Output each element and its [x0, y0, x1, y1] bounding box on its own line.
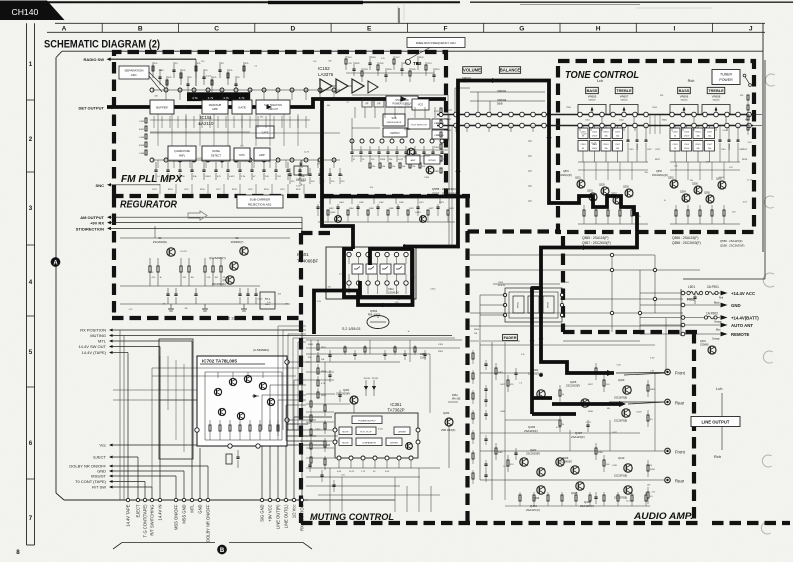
- capacitor: [405, 146, 407, 152]
- op-amp U152a: [320, 79, 332, 93]
- hollow gray arrow regurator: [188, 211, 207, 220]
- capacitor: [275, 162, 277, 170]
- wire: [640, 304, 686, 306]
- capacitor: [203, 162, 205, 170]
- transistor Q560: [718, 181, 726, 189]
- svg-text:5.6V: 5.6V: [402, 99, 407, 101]
- wire to pin MTL: [191, 341, 193, 498]
- resistor: [211, 80, 213, 85]
- wire: [394, 477, 396, 512]
- svg-text:47k: 47k: [637, 216, 640, 218]
- wire: [686, 126, 688, 129]
- pin: [681, 303, 685, 307]
- wire: [341, 477, 343, 512]
- capacitor: [432, 146, 434, 152]
- IC702 pin circles: [195, 428, 199, 432]
- resistor: [204, 258, 206, 266]
- terminal +14.4V(BATT): [721, 315, 728, 320]
- resistor: [157, 258, 159, 266]
- svg-text:33k: 33k: [260, 116, 263, 118]
- svg-text:47k: 47k: [317, 164, 320, 166]
- wire: [201, 116, 203, 128]
- svg-text:47k: 47k: [328, 287, 331, 289]
- resistor: [195, 66, 197, 71]
- capacitor: [321, 470, 323, 475]
- transistor: [259, 382, 266, 389]
- wire: [640, 292, 686, 294]
- capacitor: [719, 126, 721, 141]
- svg-text:68k: 68k: [159, 70, 162, 72]
- svg-text:0.022: 0.022: [206, 75, 212, 77]
- capacitor: [351, 146, 353, 152]
- transistor Q412: [624, 486, 632, 494]
- transistor Q401: [537, 390, 545, 398]
- vco step box: [412, 99, 429, 110]
- resistor: [747, 125, 749, 130]
- terminal AUTO ANT: [721, 323, 728, 328]
- svg-text:1/50V: 1/50V: [719, 177, 725, 179]
- wire: [112, 475, 176, 477]
- wire: [110, 222, 302, 224]
- resistor: [399, 163, 401, 168]
- transistor Q553: [589, 193, 597, 201]
- trigger box: [432, 119, 448, 129]
- node: [560, 303, 563, 306]
- capacitor: [316, 206, 319, 208]
- capacitor: [299, 168, 301, 174]
- wire stub: [269, 114, 271, 146]
- wire: [265, 116, 267, 128]
- wire stub: [704, 127, 706, 131]
- wire: [112, 340, 192, 342]
- node: [633, 112, 638, 117]
- capacitor: [728, 126, 730, 141]
- fm lower vertical stubs: [159, 184, 161, 194]
- node: [465, 112, 470, 117]
- svg-text:0.022: 0.022: [315, 428, 321, 430]
- transistor Q408: [576, 482, 584, 490]
- capacitor: [155, 162, 157, 170]
- diode: [365, 380, 367, 396]
- wire stub: [671, 127, 673, 131]
- potentiometer: [528, 296, 539, 313]
- wire stub: [726, 127, 728, 131]
- right area thin frame: [683, 278, 765, 280]
- resistor: [495, 443, 497, 448]
- resistor: [595, 363, 597, 368]
- AUDIO AMP block dashed border: [563, 330, 697, 334]
- capacitor: [339, 390, 341, 395]
- resistor: [387, 210, 389, 215]
- resistor: [377, 65, 379, 70]
- thick-to-terminal links: [624, 373, 665, 375]
- wire: [193, 116, 195, 128]
- wire: [424, 107, 426, 118]
- wire: [237, 160, 239, 168]
- resistor: [345, 59, 347, 64]
- mute box 1: [339, 427, 352, 435]
- wire: [209, 116, 211, 128]
- pin LINE OUT(L): [284, 498, 287, 501]
- node: [725, 112, 730, 117]
- BASS label L: [586, 87, 599, 93]
- bus Lch: [437, 114, 753, 116]
- wire stub: [262, 429, 300, 431]
- resistor: [212, 258, 214, 266]
- resistor: [447, 210, 449, 215]
- capacitor: [423, 353, 426, 355]
- wire stub: [634, 127, 636, 131]
- resistor: [239, 420, 241, 425]
- resistor: [647, 380, 649, 385]
- svg-text:0.022: 0.022: [378, 429, 384, 431]
- capacitor: [368, 62, 371, 64]
- fm title underline wire: [56, 51, 62, 57]
- VR152 trimmer: [294, 166, 308, 175]
- wire to pin +9V VCC: [269, 424, 271, 498]
- capacitor: [287, 162, 289, 170]
- resistor: [344, 347, 346, 352]
- volume wires: [455, 87, 470, 89]
- wire h: [306, 403, 350, 405]
- wire stub: [590, 127, 592, 131]
- wire: [112, 346, 160, 348]
- volume col stubs: [455, 126, 457, 133]
- capacitor: [336, 206, 339, 208]
- transistor Q555: [601, 187, 609, 195]
- flip-flop box: [356, 427, 376, 435]
- power switch S601: [743, 74, 746, 77]
- resistor: [647, 410, 649, 415]
- resistor: [145, 118, 147, 123]
- resistor: [369, 163, 371, 168]
- resistor: [472, 450, 474, 453]
- capacitor: [441, 146, 443, 152]
- wire: [406, 486, 408, 512]
- analog switch: [352, 264, 363, 274]
- fm mid extra wires: [150, 132, 340, 134]
- resistor: [711, 205, 713, 210]
- noise overlay: [0, 0, 1, 1]
- wire: [384, 107, 386, 118]
- svg-text:2.2k: 2.2k: [267, 302, 271, 304]
- wire: [177, 116, 179, 128]
- node: [747, 112, 752, 117]
- FM PLL MPX block dashed border: [114, 52, 446, 196]
- binder holes right edge: [765, 74, 774, 86]
- resistor: [389, 163, 391, 168]
- thick trace: IC501 loop: [344, 249, 412, 297]
- MUTING CONTROL block dashed border: [465, 196, 469, 523]
- capacitor: [587, 420, 589, 425]
- svg-text:11.2V: 11.2V: [503, 466, 509, 468]
- resistor: [631, 492, 633, 495]
- resistor: [440, 168, 442, 173]
- capacitor: [289, 168, 291, 174]
- resistor: [603, 375, 605, 380]
- wire reg rails: [120, 237, 290, 239]
- pin R/T SWITCHING: [150, 498, 153, 501]
- terminal REMOTE: [721, 332, 728, 337]
- resistor: [647, 460, 649, 465]
- node: [681, 112, 686, 117]
- transistor: [214, 388, 221, 395]
- resistor: [583, 205, 585, 210]
- capacitor: [263, 162, 265, 170]
- resistor: [427, 210, 429, 215]
- wire: [112, 335, 452, 337]
- capacitor C500: [670, 128, 680, 139]
- resistor: [409, 163, 411, 168]
- wire stub: [294, 416, 332, 418]
- wire: [306, 411, 334, 413]
- capacitor: [167, 162, 169, 170]
- svg-text:1/50V: 1/50V: [148, 272, 154, 274]
- capacitor: [485, 410, 487, 414]
- node: [600, 112, 605, 117]
- transistor Q406: [571, 466, 579, 474]
- svg-text:47k: 47k: [399, 107, 402, 109]
- svg-text:0.022: 0.022: [257, 299, 263, 301]
- capacitor: [627, 126, 629, 141]
- resistor: [317, 388, 319, 392]
- wire: [112, 465, 208, 467]
- node: [476, 112, 481, 117]
- pin +9V VCC: [268, 498, 271, 501]
- resistor: [723, 205, 725, 210]
- resistor: [747, 95, 749, 100]
- resistor: [145, 134, 147, 139]
- wire rows fm: [152, 89, 340, 91]
- wire: [249, 116, 251, 128]
- wire stub: [283, 114, 285, 146]
- svg-text:1k: 1k: [407, 331, 409, 333]
- svg-text:0.022: 0.022: [586, 422, 592, 424]
- R702 C702 pair: [226, 454, 232, 464]
- resistor: [617, 492, 619, 495]
- node: [589, 112, 594, 117]
- capacitor: [636, 126, 638, 141]
- wire: [417, 198, 419, 204]
- wire to pin RX POSITION: [301, 330, 303, 498]
- LINE OUTPUT label: [691, 417, 740, 427]
- pin MSS ON/OFF: [174, 498, 177, 501]
- wire: [253, 160, 255, 168]
- wire: [351, 198, 353, 204]
- pin: [681, 332, 685, 336]
- svg-text:DRIVER: DRIVER: [428, 160, 436, 162]
- wire to pin LINE OUT(R): [277, 436, 279, 498]
- resistor: [495, 363, 497, 368]
- resistor: [317, 352, 319, 356]
- noise detect box: [202, 146, 230, 161]
- pins2 risers into muting: [261, 395, 263, 430]
- TREBLE label R: [707, 87, 725, 93]
- wire stub: [682, 127, 684, 131]
- capacitor: [595, 492, 597, 497]
- wire to pin 1/2 Vcc: [293, 417, 295, 498]
- resistor: [699, 205, 701, 210]
- transistor Q554: [682, 194, 690, 202]
- node: [454, 112, 459, 117]
- capacitor C503: [613, 128, 623, 139]
- resistor: [364, 347, 366, 352]
- capacitor C500: [578, 128, 588, 139]
- svg-text:1k: 1k: [593, 144, 595, 146]
- capacitor: [383, 353, 386, 355]
- IC351 outline: [335, 413, 418, 458]
- wire: [157, 160, 159, 168]
- resistor: [149, 258, 151, 266]
- capacitor C511: [682, 141, 692, 152]
- wire: [110, 227, 302, 229]
- resistor: [440, 144, 442, 149]
- wire: [418, 468, 420, 512]
- output terminal Rear R: [665, 477, 671, 483]
- capacitor: [247, 288, 249, 294]
- BASS label R: [678, 87, 691, 93]
- wire stub: [693, 127, 695, 131]
- pin: [681, 291, 685, 295]
- resistor: [145, 126, 147, 131]
- power entry rail: [680, 289, 682, 336]
- svg-text:11.2V: 11.2V: [626, 500, 632, 502]
- pin 14.4V TAPE: [126, 498, 129, 501]
- capacitor: [737, 126, 739, 141]
- scan smudges: [397, 6, 399, 22]
- svg-text:5.6V: 5.6V: [617, 365, 622, 367]
- capacitor: [515, 448, 517, 453]
- IC151 pin circles bottom: [150, 158, 154, 162]
- driver box: [432, 130, 448, 139]
- resistor: [220, 258, 222, 266]
- wire: [241, 116, 243, 128]
- resistor: [219, 420, 221, 425]
- pin 14.4V IN: [158, 498, 161, 501]
- transistor Q558: [706, 195, 714, 203]
- TONE CONTROL block dashed border: [558, 61, 754, 232]
- wire stub: [623, 127, 625, 131]
- wire: [205, 160, 207, 168]
- resistor: [440, 132, 442, 137]
- transistor Q411: [622, 409, 630, 417]
- wire: [161, 116, 163, 128]
- capacitor: [376, 206, 379, 208]
- node: [610, 311, 613, 314]
- wire: [640, 317, 686, 319]
- TUNER POWER box: [712, 70, 740, 85]
- amp box: [254, 148, 270, 161]
- node: [542, 112, 547, 117]
- wire to pin 14.4V TAPE: [127, 353, 129, 499]
- wires ic152: [332, 85, 336, 87]
- wire: [269, 160, 271, 168]
- subtraction circuit box: [256, 100, 290, 114]
- svg-text:1k: 1k: [664, 200, 666, 202]
- bus Rch: [437, 125, 753, 127]
- node: [610, 253, 613, 256]
- capacitor: [387, 146, 389, 152]
- wire stub: [579, 127, 581, 131]
- wire: [292, 338, 294, 430]
- resistor: [619, 205, 621, 210]
- sheet marker A: [51, 257, 60, 266]
- transistor Q557: [613, 196, 621, 204]
- pin DOLBY NR ON/OFF: [206, 498, 209, 501]
- resistor: [472, 410, 474, 413]
- separation adj callout: [119, 66, 149, 79]
- ground: [170, 304, 172, 309]
- wire stub: [199, 114, 201, 146]
- resistor: [595, 443, 597, 448]
- wire: [306, 457, 334, 459]
- resistor: [603, 492, 605, 495]
- driver box 1: [394, 427, 410, 435]
- IC501 pin circles top: [347, 252, 351, 256]
- TH1 thermistor box: [260, 292, 275, 309]
- main amp box: [202, 100, 228, 114]
- svg-text:5.6V: 5.6V: [395, 302, 400, 304]
- resistor: [310, 440, 312, 443]
- resistor: [324, 456, 326, 459]
- capacitor: [167, 288, 169, 294]
- wire stub: [227, 114, 229, 146]
- capacitor: [432, 74, 435, 76]
- wire: [395, 198, 397, 204]
- wire: [112, 470, 184, 472]
- zener diode D701: [252, 395, 259, 397]
- svg-text:0.022: 0.022: [197, 158, 203, 160]
- svg-text:33k: 33k: [690, 180, 693, 182]
- capacitor C501: [590, 128, 600, 139]
- scan artifact top edge line: [0, 1, 460, 3]
- transistor: [244, 375, 251, 382]
- wire: [430, 486, 432, 512]
- wire: [297, 116, 299, 128]
- wire to pin GND: [199, 448, 201, 498]
- ic152 lower mini boxes: [406, 155, 420, 164]
- wire: [654, 115, 656, 135]
- resistor: [145, 142, 147, 147]
- svg-text:2.2k: 2.2k: [381, 58, 385, 60]
- tone-muting connector dashed: [468, 229, 559, 233]
- wire h volume to tone bus left: [448, 109, 452, 111]
- pin SIG GND: [260, 498, 263, 501]
- capacitor: [645, 126, 647, 141]
- resistor: [647, 487, 649, 492]
- svg-text:4.7k: 4.7k: [198, 124, 202, 126]
- wire: [289, 116, 291, 128]
- capacitor: [191, 162, 193, 170]
- resistor: [645, 492, 647, 495]
- capacitor: [378, 146, 380, 152]
- capacitor: [158, 76, 161, 78]
- op-amp U152b: [336, 79, 348, 93]
- svg-text:0.5V: 0.5V: [650, 370, 655, 372]
- wire stub: [255, 114, 257, 146]
- capacitor: [396, 206, 399, 208]
- svg-text:0.022: 0.022: [430, 289, 436, 291]
- wire stub: [631, 162, 633, 180]
- svg-text:68k: 68k: [607, 408, 610, 410]
- resistor: [188, 258, 190, 266]
- resistor: [507, 375, 509, 380]
- wire: [281, 116, 283, 128]
- resistor: [519, 492, 521, 495]
- capacitor: [299, 162, 301, 170]
- pin MTL: [190, 498, 193, 501]
- wire: [305, 116, 307, 128]
